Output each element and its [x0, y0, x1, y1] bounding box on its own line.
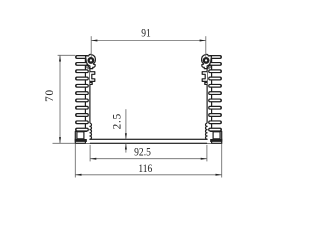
right side wall (mirror): [202, 54, 222, 143]
dimensions: [53, 36, 222, 177]
116 right arrow: [216, 174, 222, 176]
dim 70 extension lines: [58, 54, 76, 56]
dim 91 line: [91, 40, 206, 42]
dim 70 line: [59, 55, 61, 143]
70 bottom arrow: [59, 137, 61, 143]
dim 116 line: [75, 174, 221, 176]
dim 91 extension lines: [90, 36, 92, 57]
70 top arrow: [59, 55, 61, 61]
92.5 right arrow: [201, 158, 207, 160]
91 left arrow: [91, 40, 97, 42]
svg-text:116: 116: [138, 163, 152, 175]
svg-text:70: 70: [44, 89, 56, 102]
dim 92.5 extension lines: [89, 145, 91, 162]
92.5 left arrow: [90, 158, 96, 160]
dim 2.5 lines: [125, 109, 127, 139]
arrowheads: [59, 40, 222, 176]
svg-text:91: 91: [141, 28, 151, 40]
2.5 upper arrow (points down): [125, 133, 127, 139]
dim 116 extension lines: [74, 144, 76, 178]
svg-text:92.5: 92.5: [134, 147, 151, 159]
116 left arrow: [75, 174, 81, 176]
2.5 lower arrow (points up): [125, 144, 127, 150]
dim 92.5 line: [90, 158, 207, 160]
base plate: [75, 139, 221, 143]
left side wall: [75, 54, 95, 143]
91 right arrow: [200, 40, 206, 42]
svg-text:2.5: 2.5: [111, 113, 123, 129]
